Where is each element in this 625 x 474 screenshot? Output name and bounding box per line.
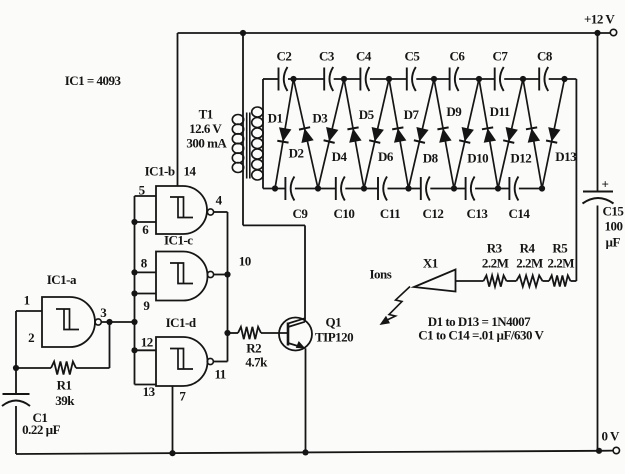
svg-text:R2: R2 <box>246 341 261 356</box>
svg-text:C8: C8 <box>537 49 553 64</box>
svg-text:C15: C15 <box>603 204 625 219</box>
svg-text:X1: X1 <box>423 256 438 271</box>
svg-text:C11: C11 <box>380 206 400 221</box>
wire pin12 stub <box>135 349 157 351</box>
diode D12 <box>523 79 542 189</box>
svg-text:6: 6 <box>142 222 149 237</box>
node pin9 junction <box>131 290 137 296</box>
resistor R4 <box>516 275 542 286</box>
node HV ladder bottom 6 <box>495 185 501 191</box>
wire HV bottom rail segments <box>263 188 285 190</box>
svg-text:C12: C12 <box>423 206 444 221</box>
svg-text:300 mA: 300 mA <box>186 136 227 151</box>
wire IC1-a input <box>16 310 42 312</box>
ion emission arrow <box>386 287 410 321</box>
diode D3 <box>318 79 344 189</box>
op IC1-a bubble <box>95 319 101 325</box>
capacitor C7 <box>494 68 496 91</box>
op IC1-b gate <box>156 186 207 234</box>
transistor Q1 base bar <box>287 323 290 346</box>
svg-text:D11: D11 <box>490 104 510 119</box>
node HV ladder top 1 <box>290 76 296 82</box>
op IC1-d gate <box>156 337 207 386</box>
transistor Q1 body <box>279 318 312 351</box>
svg-text:C9: C9 <box>293 206 309 221</box>
capacitor C14 <box>508 177 510 200</box>
svg-text:8: 8 <box>141 256 148 271</box>
svg-text:IC1 = 4093: IC1 = 4093 <box>65 73 122 88</box>
node +12V junction at right rail <box>594 30 600 36</box>
resistor R1 <box>51 362 76 375</box>
svg-text:Q1: Q1 <box>326 315 342 330</box>
svg-text:2.2M: 2.2M <box>516 256 543 271</box>
capacitor C4 <box>359 68 361 91</box>
node pin7 to 0V rail <box>169 450 175 456</box>
node HV ladder top 5 <box>476 76 482 82</box>
op IC1-a gate <box>42 297 95 347</box>
wire Q1 emitter to 0V rail <box>305 348 307 452</box>
capacitor C9 <box>284 177 286 200</box>
diode D7 <box>409 79 435 189</box>
wire HV output drop to R3 chain <box>575 79 577 281</box>
diode D4 <box>344 79 364 189</box>
wire 0V bottom rail <box>16 451 599 454</box>
node HV ladder bottom 7 <box>539 185 545 191</box>
svg-text:C2: C2 <box>277 49 292 64</box>
diode D8 <box>434 79 454 189</box>
svg-text:D3: D3 <box>312 110 328 125</box>
diode D10 <box>479 79 498 189</box>
svg-text:0.22 µF: 0.22 µF <box>22 422 60 437</box>
node HV ladder top 4 <box>431 76 437 82</box>
svg-text:100: 100 <box>605 219 623 234</box>
node pin8 junction <box>131 269 137 275</box>
svg-text:4: 4 <box>216 193 223 208</box>
svg-text:14: 14 <box>184 164 197 179</box>
svg-text:1: 1 <box>24 293 30 308</box>
op IC1-d bubble <box>207 358 213 364</box>
node HV ladder bottom 4 <box>405 185 411 191</box>
svg-text:C3: C3 <box>319 49 335 64</box>
capacitor C13 <box>465 177 467 200</box>
svg-text:C14: C14 <box>509 206 531 221</box>
svg-text:3: 3 <box>100 305 107 320</box>
svg-text:+12 V: +12 V <box>584 12 615 27</box>
resistor R3 <box>484 275 507 286</box>
wire right rail lower (C15 to 0V) <box>597 206 599 451</box>
node HV ladder top 2 <box>341 76 347 82</box>
diode D1 <box>275 79 294 189</box>
svg-text:µF: µF <box>606 235 621 250</box>
node HV ladder bottom 2 <box>315 185 321 191</box>
wire pin8 stub <box>135 271 157 273</box>
svg-text:D12: D12 <box>510 150 531 165</box>
svg-text:R1: R1 <box>57 378 72 393</box>
wire T1 primary to Q1 collector horizontal <box>243 224 305 226</box>
svg-text:IC1-a: IC1-a <box>47 272 77 287</box>
wire IC1-a output <box>101 321 134 323</box>
wire R4 to R5 <box>543 280 550 282</box>
svg-text:D8: D8 <box>423 150 439 165</box>
wire pin7 drop <box>172 386 174 453</box>
wire pin14 drop from top rail <box>177 33 179 186</box>
svg-text:C4: C4 <box>356 49 372 64</box>
wire X1 to R3 <box>456 280 484 282</box>
svg-text:R3: R3 <box>487 241 503 256</box>
svg-text:9: 9 <box>143 298 150 313</box>
capacitor C1 <box>3 393 30 395</box>
node feedback junction <box>106 319 112 325</box>
capacitor C3 <box>323 68 325 91</box>
svg-text:TIP120: TIP120 <box>315 330 353 345</box>
svg-text:R5: R5 <box>552 241 568 256</box>
capacitor C15 <box>583 191 613 193</box>
diode D2 <box>294 79 319 189</box>
wire IC1-c output <box>214 274 228 276</box>
wire R5 to HV drop <box>571 280 577 282</box>
transformer T1 core <box>246 113 248 179</box>
node 0V junction at right rail <box>596 448 602 454</box>
wire R1 right lead <box>76 367 110 369</box>
node pin12 junction <box>131 347 137 353</box>
capacitor C2 <box>278 68 280 91</box>
wire T1 primary vertical <box>242 33 244 225</box>
diode D5 <box>364 79 389 189</box>
svg-text:D1: D1 <box>268 110 283 125</box>
svg-text:IC1-d: IC1-d <box>166 315 197 330</box>
capacitor C11 <box>377 177 379 200</box>
svg-text:C5: C5 <box>405 49 421 64</box>
resistor R5 <box>549 275 571 286</box>
wire T1 secondary vertical <box>262 79 264 189</box>
svg-text:IC1-c: IC1-c <box>164 233 193 248</box>
transistor Q1 collector <box>288 318 305 323</box>
node R2 junction <box>224 330 230 336</box>
svg-text:+: + <box>602 177 609 192</box>
diode D6 <box>389 79 409 189</box>
svg-text:12.6 V: 12.6 V <box>189 121 222 136</box>
svg-text:12: 12 <box>141 335 153 350</box>
wire R2 left lead <box>228 332 239 334</box>
wire output bus <box>227 212 229 362</box>
transformer T1 secondary winding <box>252 107 263 117</box>
wire Q1 collector drop <box>304 225 306 322</box>
svg-text:T1: T1 <box>199 107 213 122</box>
wire right rail upper (+12V down to C15) <box>597 33 599 191</box>
node top rail to T1 primary <box>240 30 246 36</box>
transistor Q1 emitter <box>288 343 300 347</box>
capacitor C8 <box>538 68 540 91</box>
wire R2 to Q1 base <box>261 332 288 334</box>
svg-text:Ions: Ions <box>370 267 392 282</box>
node emitter to 0V rail <box>302 449 308 455</box>
svg-text:IC1-b: IC1-b <box>145 164 175 179</box>
node HV ladder top 6 <box>520 76 526 82</box>
terminal +12V <box>610 29 616 35</box>
svg-text:C1 to C14 =.01 µF/630 V: C1 to C14 =.01 µF/630 V <box>418 328 544 343</box>
svg-text:C6: C6 <box>450 49 466 64</box>
wire IC1-a input bus down <box>15 311 17 394</box>
wire pin6 stub <box>135 221 157 223</box>
wire C1 to 0V rail <box>15 406 17 454</box>
node R1 left junction <box>13 365 19 371</box>
svg-text:R4: R4 <box>520 241 536 256</box>
capacitor C10 <box>335 177 337 200</box>
svg-text:D7: D7 <box>404 107 420 122</box>
wire HV top rail segments <box>263 78 279 80</box>
op IC1-c bubble <box>207 271 213 277</box>
capacitor C12 <box>420 177 422 200</box>
wire feedback drop <box>109 322 111 368</box>
node IC1-c output junction <box>224 271 230 277</box>
svg-text:10: 10 <box>239 254 251 269</box>
svg-text:2.2M: 2.2M <box>548 256 575 271</box>
wire IC1-b output <box>214 211 228 213</box>
diode D9 <box>454 79 479 189</box>
svg-text:D6: D6 <box>378 149 394 164</box>
emitter electrode X1 <box>414 270 456 292</box>
wire +12V top rail <box>178 32 611 34</box>
node pin6 junction <box>131 219 137 225</box>
node IC1-a output junction <box>131 319 137 325</box>
wire input bus <box>134 196 136 385</box>
svg-text:4.7k: 4.7k <box>245 355 268 370</box>
svg-text:D10: D10 <box>467 150 488 165</box>
diode D13 <box>542 79 565 189</box>
svg-text:D5: D5 <box>359 107 375 122</box>
svg-text:39k: 39k <box>55 393 75 408</box>
wire R3 to R4 <box>507 280 517 282</box>
wire IC1-d output <box>213 361 227 363</box>
node HV ladder top 7 <box>561 76 567 82</box>
terminal 0V <box>613 447 619 453</box>
wire R1 left lead <box>16 367 51 369</box>
wire pin9 stub <box>135 293 157 295</box>
svg-text:D4: D4 <box>332 149 348 164</box>
svg-text:C10: C10 <box>334 206 355 221</box>
svg-text:2.2M: 2.2M <box>482 256 509 271</box>
node HV ladder bottom 3 <box>361 185 367 191</box>
op IC1-b bubble <box>207 209 213 215</box>
resistor R2 <box>238 327 261 339</box>
wire pin5 stub <box>135 195 157 197</box>
op IC1-c gate <box>156 252 207 301</box>
node HV ladder bottom 5 <box>451 185 457 191</box>
svg-text:2: 2 <box>28 330 34 345</box>
svg-text:11: 11 <box>215 367 226 382</box>
wire pin13 stub <box>135 384 157 386</box>
svg-text:13: 13 <box>143 384 156 399</box>
svg-text:D9: D9 <box>446 104 462 119</box>
wire 0V rail to terminal <box>599 450 613 452</box>
diode D11 <box>498 79 523 189</box>
svg-text:D2: D2 <box>289 146 304 161</box>
transformer T1 primary winding <box>232 115 243 125</box>
svg-text:C7: C7 <box>493 49 509 64</box>
svg-text:0 V: 0 V <box>602 429 621 444</box>
capacitor C5 <box>406 68 408 91</box>
node HV ladder top 3 <box>386 76 392 82</box>
node HV ladder bottom 1 <box>272 185 278 191</box>
svg-text:7: 7 <box>179 389 186 404</box>
svg-text:D13: D13 <box>555 149 577 164</box>
svg-text:C13: C13 <box>467 206 489 221</box>
capacitor C6 <box>449 68 451 91</box>
